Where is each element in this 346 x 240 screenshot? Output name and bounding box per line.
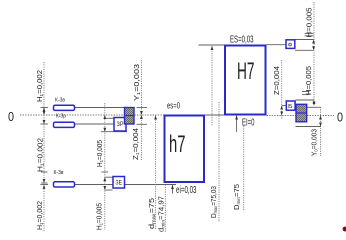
wire rect3 line right part to ei arrow <box>124 184 176 186</box>
svg-text:H=0,005: H=0,005 <box>307 7 314 37</box>
arrows x320.5 <box>319 116 322 120</box>
wire GB2 bottom ext <box>296 126 322 128</box>
svg-text:H1=0,005: H1=0,005 <box>96 203 103 230</box>
svg-text:Y1=0,003: Y1=0,003 <box>134 64 141 101</box>
wire GB2 right ext <box>307 106 321 108</box>
svg-text:Dmax=75,03: Dmax=75,03 <box>211 186 218 218</box>
svg-text:es=0: es=0 <box>167 101 180 112</box>
svg-text:Ф: Ф <box>288 42 293 48</box>
svg-text:К-Зр: К-Зр <box>56 114 66 120</box>
svg-text:0: 0 <box>8 110 14 124</box>
wire rect2 line <box>75 123 114 125</box>
svg-text:ЗР: ЗР <box>117 122 124 128</box>
Z dim line x281.7 <box>281 60 283 119</box>
svg-text:H1=0,002: H1=0,002 <box>37 70 44 102</box>
H7 box <box>225 46 266 115</box>
dim line x140.2 <box>140 60 142 160</box>
ei arrow stem x172.5 <box>172 185 174 194</box>
svg-text:dmin=74,97: dmin=74,97 <box>159 196 166 232</box>
wire B2 top ext <box>295 39 314 41</box>
gray box GB2 <box>296 104 307 122</box>
h7 box <box>165 116 205 183</box>
svg-text:Dmin=75: Dmin=75 <box>234 184 241 210</box>
wire B4 top ext <box>105 176 113 178</box>
gray box GB1 <box>125 108 135 125</box>
svg-text:H1=0,005: H1=0,005 <box>97 140 104 167</box>
tick y172 mid <box>102 171 109 173</box>
Y dim line x320.5 <box>320 107 322 156</box>
svg-text:h7: h7 <box>169 131 186 158</box>
svg-text:H=0,005: H=0,005 <box>306 66 313 95</box>
red dot bottom right <box>343 227 346 232</box>
wire H7 top to B2 <box>267 44 286 46</box>
svg-text:dmax=75: dmax=75 <box>149 198 156 229</box>
zero line between h7 and H7 <box>205 114 225 116</box>
wire B3 top ext right <box>296 99 315 101</box>
wire B2 bottom ext <box>295 49 314 51</box>
arrow x155.6 <box>154 116 157 120</box>
box B3 <box>286 101 295 110</box>
svg-text:H1=0,002: H1=0,002 <box>37 201 44 230</box>
svg-text:EI=0: EI=0 <box>242 117 255 129</box>
arrows x44 <box>43 108 46 112</box>
ticks and arrows x141.4 <box>137 107 148 109</box>
tick pair above B2 dim <box>305 32 314 34</box>
wire H7 top ext left <box>199 44 225 46</box>
svg-text:К-Зв: К-Зв <box>55 98 65 104</box>
arrow EI <box>235 116 238 120</box>
arrows x281.7 <box>280 106 283 110</box>
arrows x104.8 <box>103 115 106 119</box>
box B1 <box>114 118 126 132</box>
key link rect R1 <box>54 105 75 110</box>
tick y172 left <box>41 171 48 173</box>
svg-text:H7: H7 <box>237 58 255 85</box>
arrow x212 <box>211 46 214 50</box>
key link rect R3 <box>54 182 75 187</box>
EI arrow stem x236.6 <box>236 116 238 133</box>
ext line dmax x155.6 <box>155 115 157 229</box>
wire rect1 line <box>75 107 125 109</box>
svg-text:0: 0 <box>337 111 343 125</box>
wire B4 bottom ext <box>105 189 113 191</box>
ext line Dmin x243.7 <box>243 126 245 210</box>
wire B1 bottom ext <box>101 131 127 133</box>
wire B1 top ext <box>105 117 114 119</box>
ext line Dmax x219 <box>218 102 220 222</box>
box B2 <box>286 40 295 49</box>
wire B3 ext <box>282 105 286 107</box>
svg-text:Z=0,004: Z=0,004 <box>274 66 281 95</box>
svg-text:ЗЕ: ЗЕ <box>116 181 123 187</box>
dim line x104.8 <box>104 103 106 230</box>
wire rect3 line <box>75 184 113 186</box>
H dim line x313.3 <box>313 2 315 106</box>
svg-text:ei=0,03: ei=0,03 <box>176 184 197 196</box>
zero line left <box>20 114 164 116</box>
svg-text:H1=0,002: H1=0,002 <box>38 138 45 172</box>
zero line right segment <box>307 115 334 117</box>
key link rect R2 <box>54 122 75 127</box>
tick pair above <box>302 91 310 93</box>
svg-text:Z1=0,004: Z1=0,004 <box>133 128 140 160</box>
svg-text:К-Зв: К-Зв <box>54 170 64 176</box>
zero line right of H7 <box>267 115 296 117</box>
svg-text:Y0=0,003: Y0=0,003 <box>311 129 318 156</box>
ext line dmin x165.3 <box>164 185 166 233</box>
arrow ei <box>171 185 174 189</box>
box B4 <box>113 177 125 189</box>
arrows x313.3 lower pair <box>313 100 316 104</box>
dim line x44 <box>43 62 45 231</box>
svg-text:ES=0,03: ES=0,03 <box>230 34 254 46</box>
svg-text:Б: Б <box>288 104 293 110</box>
arrows x313.3 top pair <box>312 40 315 44</box>
ES dim line x212 <box>211 46 213 126</box>
